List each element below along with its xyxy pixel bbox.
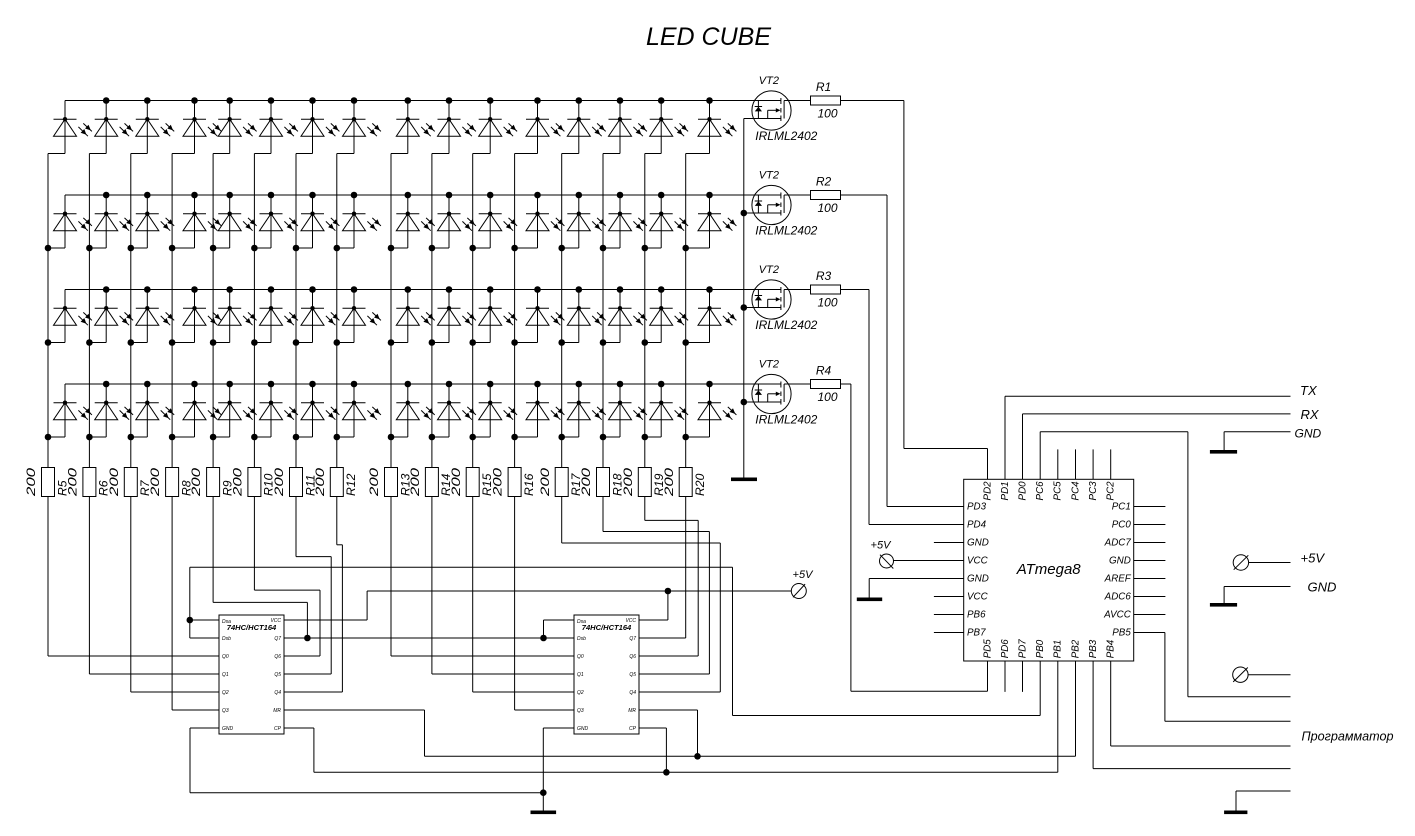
svg-text:100: 100: [817, 107, 837, 121]
svg-text:200: 200: [621, 468, 635, 498]
svg-text:Q3: Q3: [577, 708, 584, 714]
svg-text:200: 200: [408, 468, 422, 498]
svg-text:Q6: Q6: [274, 654, 281, 660]
svg-text:VT2: VT2: [759, 75, 779, 87]
svg-text:Dsb: Dsb: [222, 636, 231, 642]
svg-text:CP: CP: [274, 726, 282, 732]
svg-text:VT2: VT2: [759, 170, 779, 182]
svg-text:PB2: PB2: [1070, 639, 1081, 658]
svg-text:R1: R1: [816, 80, 831, 94]
svg-text:CP: CP: [629, 726, 637, 732]
svg-text:VT2: VT2: [759, 264, 779, 276]
svg-text:200: 200: [538, 468, 552, 498]
svg-text:R12: R12: [344, 473, 358, 496]
svg-text:PB3: PB3: [1088, 639, 1099, 658]
svg-text:Q1: Q1: [577, 672, 584, 678]
svg-text:GND: GND: [1295, 427, 1322, 441]
svg-text:Q7: Q7: [629, 636, 636, 642]
svg-text:200: 200: [579, 468, 593, 498]
svg-text:PC5: PC5: [1053, 481, 1064, 501]
svg-text:Программатор: Программатор: [1302, 729, 1394, 744]
svg-text:Q6: Q6: [629, 654, 636, 660]
svg-text:PC6: PC6: [1035, 481, 1046, 501]
svg-text:R3: R3: [816, 269, 832, 283]
svg-text:MR: MR: [628, 708, 636, 714]
svg-text:200: 200: [231, 468, 245, 498]
svg-text:IRLML2402: IRLML2402: [755, 129, 817, 143]
svg-text:PD6: PD6: [1000, 639, 1011, 659]
svg-text:Q4: Q4: [629, 690, 636, 696]
svg-text:200: 200: [272, 468, 286, 498]
svg-text:200: 200: [491, 468, 505, 498]
svg-text:PD3: PD3: [967, 502, 987, 513]
svg-text:IRLML2402: IRLML2402: [755, 413, 817, 427]
svg-text:PD0: PD0: [1017, 481, 1028, 501]
svg-text:200: 200: [313, 468, 327, 498]
svg-text:VCC: VCC: [270, 618, 281, 624]
svg-text:MR: MR: [273, 708, 281, 714]
svg-text:Q7: Q7: [274, 636, 281, 642]
svg-text:PB7: PB7: [967, 628, 986, 639]
svg-text:LED CUBE: LED CUBE: [646, 23, 771, 51]
svg-text:GND: GND: [1308, 580, 1337, 595]
svg-text:200: 200: [66, 468, 80, 498]
svg-text:ATmega8: ATmega8: [1016, 561, 1082, 578]
svg-text:AREF: AREF: [1104, 574, 1132, 585]
svg-text:GND: GND: [1109, 556, 1131, 567]
svg-text:PD1: PD1: [1000, 481, 1011, 500]
svg-text:Dsa: Dsa: [577, 619, 586, 625]
svg-text:200: 200: [189, 468, 203, 498]
svg-text:RX: RX: [1301, 407, 1320, 422]
svg-text:200: 200: [24, 468, 38, 498]
svg-text:+5V: +5V: [1301, 551, 1326, 566]
svg-text:Q0: Q0: [577, 654, 584, 660]
svg-text:PD5: PD5: [982, 639, 993, 659]
svg-text:Dsa: Dsa: [222, 619, 231, 625]
svg-text:PB6: PB6: [967, 610, 986, 621]
svg-text:PB0: PB0: [1035, 639, 1046, 658]
svg-text:PC4: PC4: [1070, 481, 1081, 501]
svg-text:VCC: VCC: [967, 556, 989, 567]
svg-text:Q5: Q5: [274, 672, 281, 678]
svg-text:Q0: Q0: [222, 654, 229, 660]
svg-text:100: 100: [817, 390, 837, 404]
svg-text:PC0: PC0: [1112, 520, 1132, 531]
svg-text:PB1: PB1: [1053, 640, 1064, 659]
svg-text:VT2: VT2: [759, 359, 779, 371]
svg-text:Dsb: Dsb: [577, 636, 586, 642]
svg-text:Q4: Q4: [274, 690, 281, 696]
svg-text:IRLML2402: IRLML2402: [755, 318, 817, 332]
svg-text:TX: TX: [1300, 383, 1318, 398]
svg-text:Q2: Q2: [577, 690, 584, 696]
svg-text:PD7: PD7: [1017, 639, 1028, 659]
svg-text:GND: GND: [577, 726, 589, 732]
svg-text:100: 100: [817, 201, 837, 215]
svg-text:+5V: +5V: [871, 540, 893, 552]
svg-text:R16: R16: [522, 473, 536, 496]
svg-text:R2: R2: [816, 175, 832, 189]
svg-text:PC1: PC1: [1112, 502, 1131, 513]
svg-text:74HC/HCT164: 74HC/HCT164: [582, 625, 632, 632]
svg-text:PC3: PC3: [1088, 481, 1099, 501]
svg-text:PD4: PD4: [967, 520, 987, 531]
svg-text:R20: R20: [693, 473, 707, 496]
svg-text:VCC: VCC: [967, 592, 989, 603]
svg-text:VCC: VCC: [625, 618, 636, 624]
svg-text:GND: GND: [967, 538, 989, 549]
svg-text:200: 200: [148, 468, 162, 498]
svg-text:200: 200: [449, 468, 463, 498]
svg-text:200: 200: [662, 468, 676, 498]
svg-text:GND: GND: [967, 574, 989, 585]
svg-text:Q3: Q3: [222, 708, 229, 714]
svg-text:200: 200: [107, 468, 121, 498]
svg-text:GND: GND: [222, 726, 234, 732]
svg-text:ADC6: ADC6: [1104, 592, 1132, 603]
svg-text:Q2: Q2: [222, 690, 229, 696]
svg-text:+5V: +5V: [793, 569, 815, 581]
svg-text:100: 100: [817, 296, 837, 310]
svg-text:ADC7: ADC7: [1104, 538, 1132, 549]
svg-text:Q5: Q5: [629, 672, 636, 678]
svg-text:PC2: PC2: [1106, 481, 1117, 501]
svg-text:R4: R4: [816, 364, 832, 378]
svg-text:PB5: PB5: [1112, 628, 1131, 639]
svg-text:74HC/HCT164: 74HC/HCT164: [227, 625, 277, 632]
svg-text:PD2: PD2: [982, 481, 993, 501]
svg-text:200: 200: [367, 468, 381, 498]
svg-text:PB4: PB4: [1106, 639, 1117, 658]
svg-text:AVCC: AVCC: [1103, 610, 1132, 621]
svg-text:Q1: Q1: [222, 672, 229, 678]
svg-text:IRLML2402: IRLML2402: [755, 224, 817, 238]
